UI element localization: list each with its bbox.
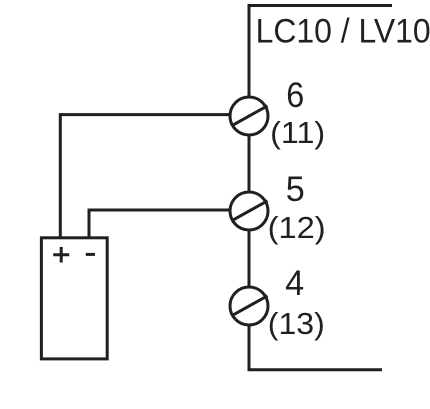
svg-text:(13): (13) [268, 307, 325, 341]
svg-text:LC10 / LV10: LC10 / LV10 [256, 12, 430, 50]
battery - polarity mark [86, 253, 95, 256]
wire: battery - to terminal 5 [89, 210, 232, 238]
terminal 5 (screw terminal circle) [230, 192, 268, 230]
terminal 4 (screw terminal circle) [230, 287, 268, 325]
svg-text:(11): (11) [270, 116, 325, 150]
terminal 5 screw slot [233, 201, 268, 221]
battery + polarity mark [53, 247, 69, 263]
terminal 6 screw slot [233, 106, 268, 126]
svg-text:(12): (12) [268, 211, 326, 245]
svg-text:6: 6 [286, 75, 304, 115]
terminal 6 (screw terminal circle) [230, 97, 268, 135]
battery BT1 body [41, 238, 107, 359]
terminal 4 screw slot [233, 296, 268, 316]
wire: LC10/LV10 device rail (top line, vertical bus, bottom line) [249, 6, 392, 370]
svg-text:4: 4 [285, 263, 304, 303]
svg-text:5: 5 [286, 169, 305, 209]
wire: battery + to terminal 6 [60, 115, 231, 238]
